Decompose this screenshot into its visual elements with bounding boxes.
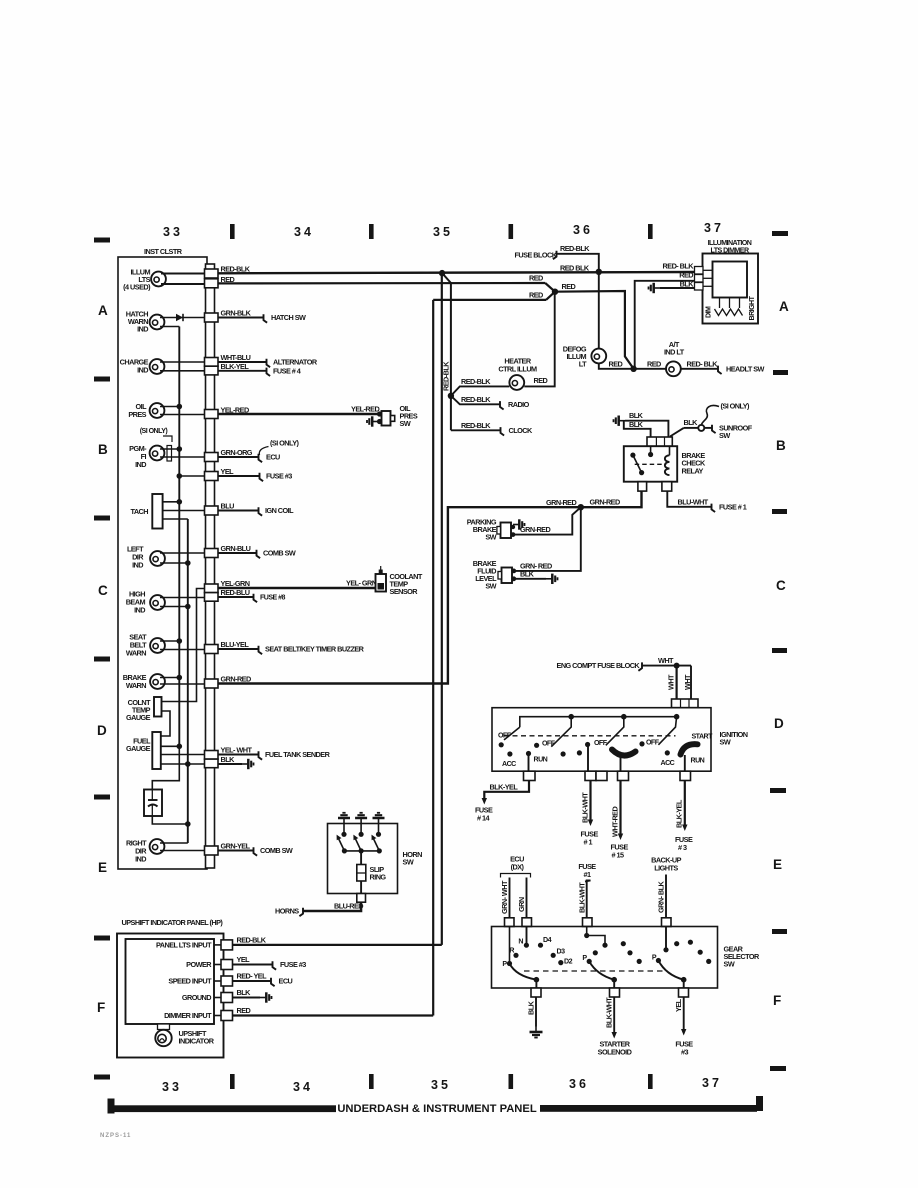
node highbeam-bus2 junction [185, 604, 191, 610]
right margin dash 3 [772, 509, 787, 514]
svg-text:IND: IND [135, 855, 146, 864]
wire fuel lead3 to YEL-WHT connector [161, 754, 205, 756]
svg-text:BRIGHT: BRIGHT [748, 295, 756, 320]
svg-text:C: C [776, 578, 786, 593]
svg-text:GRN: GRN [517, 897, 526, 912]
wire YEL-GRN long to coolant sensor [218, 587, 376, 589]
wire highbeam top lead [160, 597, 205, 599]
wire seatbelt bottom lead [160, 649, 205, 651]
gear bottom connector 1 [531, 988, 541, 997]
wire RED from cluster [218, 282, 545, 285]
svg-text:UNDERDASH & INSTRUMENT PANEL: UNDERDASH & INSTRUMENT PANEL [337, 1103, 536, 1115]
wire to sunroof sw [704, 427, 711, 429]
relay BRAKE CHECK RELAY box [624, 446, 677, 482]
svg-text:RED-BLK: RED-BLK [461, 395, 491, 404]
left margin dash 5 [94, 795, 110, 800]
ignition switch arm 2 [551, 717, 571, 747]
svg-text:# 3: # 3 [678, 843, 687, 852]
svg-text:BLK: BLK [237, 988, 252, 997]
svg-text:(SI ONLY): (SI ONLY) [721, 402, 751, 411]
svg-text:IND: IND [135, 460, 146, 469]
svg-text:B: B [98, 442, 108, 457]
wire YEL-WHT to fuel tank sender [218, 754, 258, 756]
node fuel-bus junction [177, 744, 183, 750]
wire RED to defog branch [555, 291, 634, 369]
svg-text:IGN COIL: IGN COIL [265, 506, 294, 515]
wire GRN-RED long run [218, 492, 642, 684]
gear arm 3 [658, 961, 683, 980]
connector RED [205, 279, 219, 288]
top ruler tick 1 [230, 224, 235, 239]
wire horn bottom bus [344, 850, 379, 852]
contacts group 1 [499, 742, 504, 747]
contact group 3 [585, 742, 590, 747]
left margin dash 1 [94, 238, 110, 243]
svg-text:WARN: WARN [126, 681, 146, 690]
svg-text:SW: SW [485, 582, 496, 591]
ground dimmer BLK [649, 283, 661, 293]
connector BLU [205, 506, 219, 515]
wire RED-BLK accessory vertical [450, 283, 452, 430]
svg-text:FUSE #8: FUSE #8 [260, 594, 286, 602]
svg-text:OFF: OFF [594, 739, 608, 747]
top ruler tick 2 [369, 224, 374, 239]
wire tach lead1 to bus [163, 501, 180, 503]
svg-text:IND: IND [134, 606, 145, 615]
svg-text:A: A [779, 299, 789, 314]
svg-text:BLK: BLK [684, 418, 699, 427]
wire BLU-RED to horns [304, 902, 362, 911]
wire BLK to ground [218, 763, 242, 765]
wire BLK dimmer ground [660, 287, 695, 289]
wire fuel lead4 to BLK connector [161, 763, 205, 765]
svg-text:TACH: TACH [130, 507, 148, 516]
svg-text:GRN- BLK: GRN- BLK [657, 880, 666, 913]
wire rightdir bottom lead [160, 850, 205, 852]
wire highbeam bottom lead to bus2 [160, 606, 188, 608]
relay center pin [648, 452, 653, 457]
gear dashed line [524, 970, 668, 972]
crescent contact start [681, 744, 698, 754]
svg-text:YEL- GRN: YEL- GRN [346, 579, 377, 588]
wire RED-BLK panel lts input [233, 944, 442, 946]
svg-text:FUSE BLOCK: FUSE BLOCK [515, 250, 558, 259]
ignition bottom connector 1 [524, 771, 536, 780]
node red-blk / panel-lts junction [439, 270, 445, 276]
node cap-bus2 junction [185, 821, 191, 827]
svg-text:SW: SW [403, 858, 414, 867]
svg-text:DIM: DIM [705, 306, 713, 318]
node red merge [552, 289, 558, 295]
svg-text:ACC: ACC [661, 759, 675, 767]
svg-text:DIMMER INPUT: DIMMER INPUT [164, 1011, 212, 1020]
wire brakewarn top lead to bus [160, 677, 179, 679]
svg-text:HEADLT SW: HEADLT SW [726, 365, 765, 374]
wire brakewarn bottom lead [160, 683, 205, 685]
svg-text:WHT: WHT [658, 656, 674, 665]
svg-text:GRN-RED: GRN-RED [546, 498, 576, 507]
relay top connector row [647, 437, 672, 446]
svg-text:IND: IND [132, 561, 143, 570]
ignition bottom connector 5 [680, 771, 691, 780]
ground horn 3 [373, 813, 385, 824]
wire crescent1 down [620, 758, 622, 772]
svg-text:WHT-BLU: WHT-BLU [221, 353, 251, 362]
svg-text:RUN: RUN [691, 757, 705, 765]
right margin dash 6 [772, 929, 787, 934]
wire fuse block RED-BLK [557, 254, 599, 272]
svg-text:GRN-RED: GRN-RED [590, 498, 620, 507]
crescent contact 1 [612, 750, 636, 756]
right margin dash 7 [770, 1066, 786, 1071]
node leftdir-bus2 junction [185, 560, 191, 566]
svg-text:34: 34 [294, 225, 314, 239]
svg-text:RED: RED [529, 274, 543, 283]
svg-text:(SI ONLY): (SI ONLY) [140, 427, 169, 435]
svg-text:INDICATOR: INDICATOR [179, 1037, 215, 1046]
wire BLK lower to relay [624, 421, 651, 437]
horn bottom contacts [342, 848, 347, 853]
ground relay BLK [614, 416, 626, 426]
wire GRN vertical [526, 878, 528, 946]
horn switch box [328, 824, 398, 894]
wire rightdir top lead to bus2 [160, 842, 188, 844]
connector GRN-RED [205, 679, 219, 688]
inner bus wire vertical x179 [178, 327, 180, 747]
wire diagonal red merge lower [546, 292, 555, 300]
svg-text:RED: RED [679, 271, 693, 280]
left margin dash 3 [94, 516, 110, 521]
wire arm3 to connector3 [683, 980, 685, 988]
wire run1 down [528, 754, 530, 772]
connector YEL-GRN [205, 584, 219, 593]
ground upshift [260, 992, 272, 1002]
horn switch arm 2 [355, 839, 361, 851]
svg-text:RED: RED [647, 359, 661, 368]
svg-text:#1: #1 [583, 870, 591, 879]
node fuel4-bus2 junction [185, 761, 191, 767]
inner bus2 wire vertical x188 [187, 519, 189, 843]
bulb HEATER CTRL ILLUM [509, 375, 524, 390]
svg-text:HATCH SW: HATCH SW [271, 313, 306, 322]
svg-text:# 15: # 15 [612, 851, 624, 860]
svg-text:(DX): (DX) [511, 863, 525, 872]
relay switch arm [633, 455, 642, 473]
title bracket left cap [108, 1099, 115, 1114]
wire arm1 to connector1 [535, 980, 537, 988]
wire GRN-RED brake fluid [514, 507, 581, 571]
wire colnt bottom lead [161, 711, 170, 736]
left margin dash 6 [94, 936, 110, 941]
wire BLU-WHT to fuse 1 [667, 491, 711, 507]
bottom ruler tick 4 [648, 1074, 653, 1089]
title bracket right bar [540, 1105, 757, 1112]
node defog junction [630, 366, 636, 372]
svg-text:IND: IND [137, 366, 148, 375]
wire start down [684, 755, 686, 771]
wire YEL stub from bus [179, 475, 205, 477]
bottom ruler tick 1 [230, 1074, 235, 1089]
svg-text:RED: RED [237, 1006, 251, 1015]
svg-text:34: 34 [293, 1080, 313, 1094]
connector YEL [205, 472, 219, 481]
svg-text:OFF: OFF [498, 732, 512, 740]
svg-text:BLK-YEL: BLK-YEL [675, 799, 684, 828]
node yel-bus junction [177, 473, 183, 479]
left margin dash 2 [94, 377, 110, 382]
wire RED-YEL speed input [233, 980, 271, 982]
ignition switch arm 4 [658, 717, 676, 745]
node pgm-bus junction [177, 446, 183, 452]
ecu bracket [501, 874, 531, 878]
gear arm 1 [510, 964, 537, 980]
svg-text:36: 36 [573, 223, 593, 237]
wire diagonal red merge upper [545, 283, 555, 292]
svg-text:FUSE #3: FUSE #3 [266, 472, 292, 481]
node bus 2 [568, 714, 574, 720]
svg-text:ECU: ECU [266, 453, 280, 462]
wire sunroof squiggle [702, 406, 720, 425]
node tach-bus junction [177, 499, 183, 505]
wire arm2 to connector2 [613, 980, 615, 988]
gear bottom connector 2 [610, 988, 620, 997]
svg-text:F: F [773, 993, 781, 1008]
connector dimmer RED-BLK [695, 267, 704, 275]
svg-text:D: D [774, 716, 784, 731]
connector YEL-WHT [205, 751, 219, 760]
svg-text:YEL-RED: YEL-RED [351, 405, 379, 414]
ground horn 2 [355, 813, 367, 824]
connector GRN-BLK [205, 313, 219, 322]
wire A/T right RED-BLK to headlt sw [681, 368, 718, 370]
svg-text:BLK-YEL: BLK-YEL [490, 783, 519, 792]
bottom ruler tick 3 [509, 1074, 514, 1089]
gear top connector 3 [583, 918, 593, 927]
svg-text:START: START [692, 733, 714, 741]
connector strip [206, 264, 215, 868]
node accessory junction [448, 393, 454, 399]
wire pgm top lead to bus [160, 448, 179, 450]
gear selector switch box [492, 927, 718, 989]
wire WHT vertical 2 [690, 666, 692, 699]
svg-text:D2: D2 [564, 958, 573, 966]
ignition top connector [672, 699, 699, 708]
svg-text:RED: RED [534, 376, 548, 385]
svg-text:RED: RED [529, 290, 543, 299]
svg-text:BLK-YEL: BLK-YEL [221, 362, 250, 371]
node red-blk / fuse-block junction [596, 269, 602, 275]
resistor dimmer element [719, 298, 721, 309]
svg-text:D: D [97, 723, 107, 738]
svg-text:ENG COMPT FUSE BLOCK: ENG COMPT FUSE BLOCK [557, 661, 641, 670]
svg-text:# 1: # 1 [584, 838, 593, 847]
upshift connector 3 [214, 980, 221, 982]
connector RED-BLU [205, 593, 219, 602]
wire RADIO branch [451, 396, 500, 405]
connector GRN-ORG [205, 453, 219, 462]
wire oil top lead to bus [160, 406, 179, 408]
wire CLOCK branch [451, 429, 500, 431]
svg-text:RED- BLK: RED- BLK [687, 359, 719, 368]
wire fuel lead2 to bus end [161, 745, 180, 747]
upshift connector 1 [214, 944, 221, 946]
wire heater left RED-BLK [451, 386, 509, 395]
svg-text:GRN- WHT: GRN- WHT [500, 880, 509, 914]
wire heater right RED [524, 292, 554, 387]
wire WHT vertical 1 [675, 666, 677, 699]
contacts group 4 [639, 741, 644, 746]
node sunroof connector circle [698, 425, 704, 431]
node wht junction [674, 663, 680, 669]
wire RED-BLU to fuse 8 [218, 596, 253, 598]
wire BLK brake fluid to ground [514, 578, 546, 580]
wire coolant gauge feed vertical x196.5 [162, 589, 205, 702]
relay coil [665, 455, 670, 475]
svg-text:35: 35 [431, 1078, 451, 1092]
svg-text:SW: SW [719, 431, 730, 440]
wire horn stem 3 [378, 824, 380, 835]
node parking brake junction [578, 504, 584, 510]
svg-text:GRN-YEL: GRN-YEL [221, 842, 251, 851]
svg-text:RUN: RUN [534, 756, 548, 764]
connector GRN-YEL [205, 846, 219, 855]
horn switch arm 1 [339, 839, 345, 851]
svg-text:(4 USED): (4 USED) [123, 283, 151, 292]
gear arm 2 [589, 961, 614, 979]
gear group3 contacts [663, 947, 668, 952]
svg-text:# 14: # 14 [477, 814, 490, 823]
svg-text:SPEED INPUT: SPEED INPUT [168, 977, 212, 986]
svg-text:35: 35 [433, 225, 453, 239]
wire BLK to ground [535, 997, 537, 1027]
svg-text:SEAT BELT/KEY TIMER BUZZER: SEAT BELT/KEY TIMER BUZZER [265, 645, 365, 654]
svg-text:NZPS-11: NZPS-11 [100, 1133, 131, 1139]
wire RED to dimmer [635, 281, 695, 369]
wire RED-BLK main bus [218, 272, 695, 273]
dimmer inner box [713, 262, 748, 298]
wire RED loop horizontal [433, 299, 546, 301]
svg-text:BLK-WHT: BLK-WHT [578, 882, 587, 913]
wire slip ring down [360, 881, 362, 894]
svg-text:CTRL ILLUM: CTRL ILLUM [498, 365, 537, 374]
ignition switch arm 3 [606, 717, 624, 746]
wire BLU-YEL to buzzer [218, 648, 258, 650]
svg-text:GAUGE: GAUGE [126, 713, 151, 722]
svg-text:BLK: BLK [629, 411, 644, 420]
wire leftdir top lead [160, 552, 205, 554]
upshift inner box [126, 939, 215, 1024]
capacitor component box [144, 790, 162, 817]
svg-text:SW: SW [724, 960, 735, 969]
switch OIL PRES SW [377, 411, 382, 416]
svg-text:WHT-RED: WHT-RED [611, 807, 620, 837]
svg-text:BLU-YEL: BLU-YEL [221, 640, 250, 649]
svg-text:YEL-GRN: YEL-GRN [221, 579, 250, 588]
gear top connector 4 [662, 918, 672, 927]
ground fuel BLK [242, 759, 254, 769]
node seatbelt-bus junction [177, 638, 183, 644]
svg-text:RED: RED [609, 359, 623, 368]
wire to slip ring [360, 851, 362, 865]
svg-text:BLK-WHT: BLK-WHT [581, 792, 590, 823]
ignition bus wire [520, 717, 677, 727]
wire pgm bottom lead [160, 456, 205, 458]
wire GRN-ORG to ECU [218, 456, 258, 458]
svg-text:RED BLK: RED BLK [560, 263, 590, 272]
svg-text:R: R [509, 947, 514, 955]
svg-text:RELAY: RELAY [682, 466, 704, 475]
bulb UPSHIFT INDICATOR [155, 1030, 171, 1046]
svg-text:BLK-WHT: BLK-WHT [605, 997, 614, 1028]
ignition switch arm 1 [504, 727, 520, 740]
svg-text:GRN-BLK: GRN-BLK [221, 309, 252, 318]
svg-text:SENSOR: SENSOR [390, 587, 419, 596]
wire YEL power [233, 964, 273, 966]
svg-text:LT: LT [579, 360, 587, 369]
svg-text:WARN: WARN [126, 649, 146, 658]
wire BLK-YEL to fuse 14 [484, 781, 529, 800]
svg-text:33: 33 [163, 225, 183, 239]
upshift outer box [117, 934, 224, 1058]
bottom ruler tick 2 [369, 1074, 374, 1089]
wire defog bottom [599, 364, 634, 369]
wire horn stem 2 [360, 824, 362, 835]
wire YEL to fuse 3 [218, 475, 259, 477]
upshift connector 2 [214, 964, 221, 966]
contacts group 2 [534, 743, 539, 748]
svg-text:BLK: BLK [527, 1000, 536, 1015]
svg-text:E: E [773, 857, 782, 872]
connector YEL-RED [205, 410, 219, 419]
wire GRN-RED parking brake [513, 507, 581, 534]
svg-text:RED-BLK: RED-BLK [560, 244, 590, 253]
svg-text:OFF: OFF [542, 739, 556, 747]
svg-text:CLOCK: CLOCK [509, 426, 533, 435]
svg-text:RED- YEL: RED- YEL [237, 972, 268, 981]
wire capacitor bottom to bus2 [152, 816, 188, 824]
right margin dash 2 [773, 370, 788, 375]
svg-text:D4: D4 [543, 936, 552, 944]
wire horn stem 1 [343, 824, 345, 835]
wire YEL to fuse 3 [683, 997, 685, 1030]
ignition bottom connector 2 [585, 771, 596, 780]
wire BLU to ign coil [218, 510, 258, 512]
relay bottom connector right [662, 482, 672, 491]
connector dimmer RED [695, 275, 704, 283]
wire dimmer stubs [703, 269, 713, 271]
left margin dash 4 [94, 657, 110, 662]
wire group3 down [587, 745, 589, 772]
svg-text:RED-BLK: RED-BLK [461, 421, 491, 430]
svg-text:SW: SW [400, 419, 411, 428]
relay contact lower [639, 470, 644, 475]
svg-text:YEL: YEL [237, 955, 251, 964]
wire BLK-YEL2 to fuse 3 [684, 781, 686, 826]
svg-text:YEL: YEL [674, 998, 683, 1012]
svg-text:POWER: POWER [186, 960, 212, 969]
svg-text:FUSE # 1: FUSE # 1 [719, 503, 747, 512]
svg-text:BLK: BLK [629, 420, 644, 429]
wire oil bottom lead [160, 414, 205, 416]
relay contact upper [630, 453, 635, 458]
diode on hatch lead [176, 314, 183, 321]
svg-text:F: F [97, 1000, 105, 1015]
left margin dash 7 [94, 1075, 110, 1080]
wire RED-BLK vertical to upshift panel [441, 273, 443, 945]
wire BLK ground upshift [233, 997, 261, 999]
ignition bottom connector 3 [596, 771, 607, 780]
wire RED vertical to upshift dimmer input [432, 300, 434, 1016]
